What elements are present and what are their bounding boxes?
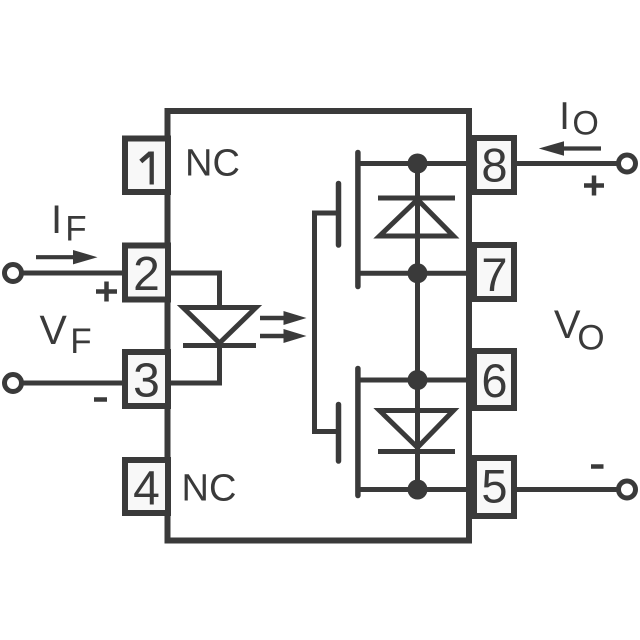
wire Q2 drain to pin6: [358, 378, 476, 383]
pin 2 box: [125, 246, 168, 300]
svg-text:3: 3: [133, 355, 160, 408]
wire vertical output bus through diodes: [415, 164, 420, 490]
gate wire connecting both MOSFET gates: [315, 213, 339, 432]
pin 1 box: [125, 139, 168, 193]
svg-text:V: V: [40, 307, 68, 353]
junction dot pin8 node: [408, 154, 428, 174]
light emission arrow upper: [260, 311, 307, 325]
light emission arrow lower: [260, 329, 307, 343]
pin 3 box: [125, 352, 168, 406]
label VO: [554, 303, 605, 358]
wire pin2 to LED anode: [163, 273, 220, 306]
wire Q1 drain to pin8: [358, 161, 476, 166]
junction dot pin6 node: [408, 370, 428, 390]
body diode D3 triangle (Q2): [380, 411, 454, 448]
wire pin8 to external: [516, 161, 619, 166]
MOSFET Q1 gate plate: [336, 184, 342, 246]
arrow IF current direction: [36, 250, 98, 264]
junction dot pin5 node: [408, 480, 428, 500]
arrow IO current direction: [539, 141, 601, 156]
terminal circle input -: [5, 375, 22, 392]
svg-text:O: O: [572, 105, 598, 143]
svg-text:6: 6: [481, 354, 507, 407]
terminal circle output +: [619, 155, 636, 172]
svg-text:4: 4: [133, 463, 160, 516]
wire Q2 source to pin5: [358, 487, 476, 492]
IC package U1 outline: [168, 111, 470, 541]
svg-text:I: I: [51, 198, 62, 242]
terminal circle output -: [619, 481, 636, 498]
svg-text:O: O: [577, 319, 604, 358]
svg-text:8: 8: [481, 139, 507, 192]
wire pin5 to external: [516, 487, 619, 492]
body diode D2 triangle (Q1): [380, 200, 454, 237]
svg-text:F: F: [70, 322, 91, 361]
wire external to pin2: [22, 271, 126, 276]
label - input polarity: [94, 397, 107, 402]
svg-text:7: 7: [481, 248, 507, 301]
body diode D3 cathode bar: [378, 449, 455, 454]
svg-text:5: 5: [481, 460, 507, 513]
pin 8 box: [474, 138, 514, 192]
svg-text:F: F: [65, 210, 86, 249]
junction dot pin7 node: [408, 263, 428, 283]
pin 5 box: [474, 458, 514, 516]
svg-text:NC: NC: [185, 143, 240, 185]
svg-text:2: 2: [133, 248, 160, 301]
label + output polarity: [584, 176, 604, 196]
label - output polarity: [591, 464, 604, 469]
label + input polarity: [96, 282, 117, 302]
LED D1 cathode bar: [183, 343, 256, 348]
pin 6 box: [474, 351, 514, 408]
LED D1 triangle (anode): [183, 308, 256, 344]
wire Q1 source to pin7: [358, 271, 476, 276]
pin 1 number: [141, 152, 152, 185]
MOSFET Q1 channel bar: [355, 153, 361, 287]
svg-text:I: I: [559, 95, 570, 138]
wire LED cathode to pin3: [163, 346, 220, 384]
label IO: [559, 95, 599, 143]
terminal circle input +: [5, 265, 22, 282]
wire external to pin3: [22, 381, 126, 386]
svg-text:NC: NC: [182, 468, 237, 510]
label IF: [51, 198, 87, 249]
body diode D2 cathode bar: [378, 196, 455, 201]
pin 4 box: [125, 460, 168, 513]
MOSFET Q2 gate plate: [336, 405, 342, 462]
MOSFET Q2 channel bar: [355, 369, 361, 496]
pin 7 box: [474, 245, 514, 299]
label VF: [40, 307, 92, 361]
